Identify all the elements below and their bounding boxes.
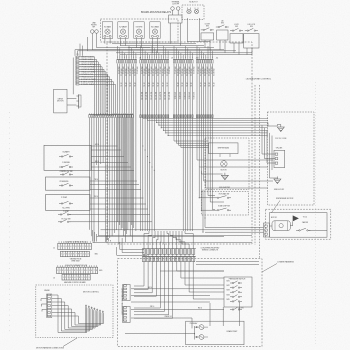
svg-text:3: 3: [66, 254, 67, 256]
svg-text:6: 6: [69, 270, 70, 272]
svg-text:1: 1: [80, 246, 81, 248]
svg-text:2: 2: [83, 246, 84, 248]
svg-text:SW5: SW5: [226, 299, 229, 301]
svg-text:K3 SPIN: K3 SPIN: [136, 27, 143, 29]
ground shifter: [224, 173, 226, 176]
svg-text:2: 2: [60, 270, 61, 272]
switch row 3: [232, 292, 233, 293]
svg-text:MOTOR HARNESS CONNECTIONS: MOTOR HARNESS CONNECTIONS: [36, 347, 65, 350]
connector inline row: [140, 115, 141, 118]
svg-text:OR 16: OR 16: [150, 306, 155, 308]
svg-text:1: 1: [61, 254, 62, 256]
wire bundle J11 down: [197, 64, 273, 160]
table J2 row2: [61, 251, 90, 256]
svg-text:GY-RD 16: GY-RD 16: [174, 92, 176, 99]
switch row lid: [232, 309, 233, 310]
svg-text:5: 5: [71, 254, 72, 256]
svg-text:5: 5: [67, 270, 68, 272]
svg-text:1: 1: [57, 270, 58, 272]
wire comb exits right: [196, 261, 259, 263]
svg-text:5: 5: [68, 246, 69, 248]
svg-text:K6 RLY K7: K6 RLY K7: [189, 2, 197, 4]
svg-text:WIRING CONNECTS: WIRING CONNECTS: [202, 250, 219, 252]
wire S3 down: [233, 43, 235, 53]
component U7: [171, 7, 175, 11]
svg-text:BOARD-MOUNTED RELAYS: BOARD-MOUNTED RELAYS: [141, 11, 172, 14]
svg-text:SW1: SW1: [226, 281, 229, 283]
svg-text:2: 2: [85, 254, 86, 256]
wire bus left bends: [74, 50, 76, 56]
svg-text:PRESSURE SWITCH: PRESSURE SWITCH: [229, 279, 246, 281]
wire P1 staircase: [79, 57, 95, 116]
wire lower run2: [131, 317, 192, 319]
svg-text:K2 WASH: K2 WASH: [119, 26, 127, 29]
svg-text:CUTOFF: CUTOFF: [172, 3, 179, 5]
thermistor RT1: [91, 30, 95, 34]
wire RT1 down: [92, 37, 140, 50]
box L3: [46, 195, 91, 211]
wire S4 down: [246, 48, 248, 55]
wire left drop: [87, 37, 120, 51]
wire K7 down: [198, 18, 200, 42]
connector J11: [197, 59, 213, 61]
svg-text:3: 3: [67, 277, 68, 279]
svg-text:4: 4: [66, 246, 67, 248]
svg-text:P1: P1: [76, 54, 78, 56]
box thermal switches: [224, 277, 252, 307]
svg-text:WH/BK: WH/BK: [44, 290, 50, 292]
ground door: [276, 177, 278, 180]
table J3 row2: [62, 274, 90, 280]
svg-text:GND-DOOR: GND-DOOR: [274, 189, 285, 191]
dashed box shifter: [205, 138, 249, 190]
component drive motor box: [54, 89, 67, 113]
svg-text:6: 6: [91, 270, 92, 272]
svg-text:J3 24-PIN CONNECTOR (J3): J3 24-PIN CONNECTOR (J3): [65, 265, 88, 267]
svg-text:8: 8: [78, 254, 79, 256]
dashed box board-mounted relays: [101, 19, 179, 42]
switch row 2: [232, 287, 233, 288]
relay K6: [187, 9, 191, 13]
faint page line: [315, 82, 317, 345]
wire dispenser internal: [269, 225, 272, 227]
svg-text:2: 2: [86, 277, 87, 279]
wire left boxes to bundles: [91, 145, 118, 147]
svg-text:9: 9: [80, 254, 81, 256]
dashed box dispenser: [266, 209, 331, 239]
svg-text:5: 5: [72, 277, 73, 279]
connector J10: [174, 59, 193, 61]
wire lower run1: [131, 309, 224, 311]
wire relay outputs down: [104, 38, 106, 43]
svg-text:6: 6: [73, 254, 74, 256]
wire box to bracket: [67, 98, 76, 100]
svg-text:9: 9: [78, 246, 79, 248]
connector P3: [47, 295, 49, 317]
svg-text:GY-RD 16: GY-RD 16: [178, 92, 180, 99]
svg-text:3: 3: [63, 246, 64, 248]
svg-text:4: 4: [87, 246, 88, 248]
svg-text:SW: SW: [250, 26, 253, 28]
table J2 row1: [58, 243, 92, 249]
svg-text:SW: SW: [206, 26, 209, 28]
svg-text:1: 1: [79, 270, 80, 272]
wire bundle J9 down: [140, 64, 142, 231]
svg-text:8: 8: [96, 270, 97, 272]
dashed line nested1: [254, 85, 256, 245]
leader motor harness: [63, 338, 77, 347]
svg-text:3: 3: [62, 270, 63, 272]
wire J3 row1 stubs: [57, 265, 59, 267]
transistor Q1: [196, 327, 197, 328]
wire S2 down: [219, 40, 221, 50]
svg-text:SW2: SW2: [226, 285, 229, 287]
svg-text:OVERFLOW SW: OVERFLOW SW: [60, 171, 73, 173]
dashed box machine control: [107, 42, 252, 244]
svg-text:4: 4: [86, 270, 87, 272]
svg-text:SW3: SW3: [226, 290, 229, 292]
arrow to J4: [293, 215, 299, 221]
connector J14: [142, 249, 145, 255]
svg-text:1: 1: [59, 246, 60, 248]
wire J14 gather bends: [144, 231, 149, 249]
svg-text:J3: J3: [53, 278, 55, 280]
box L1: [44, 145, 91, 170]
connector P2: [89, 114, 133, 116]
svg-text:8: 8: [74, 270, 75, 272]
svg-text:SHIFTER ASM: SHIFTER ASM: [218, 147, 230, 150]
motor dispenser: [272, 221, 290, 231]
wire motor control U-bundle: [52, 295, 87, 333]
svg-text:7: 7: [77, 277, 78, 279]
svg-text:7: 7: [94, 270, 95, 272]
connector P5: [123, 307, 125, 321]
svg-text:1: 1: [63, 277, 64, 279]
dashed box dispenser switches: [201, 191, 248, 215]
svg-text:BU-WH 16: BU-WH 16: [154, 92, 156, 100]
svg-text:SW4: SW4: [226, 294, 229, 296]
svg-text:3: 3: [89, 277, 90, 279]
svg-text:GND-SHIFTER: GND-SHIFTER: [219, 187, 231, 189]
svg-text:4: 4: [65, 270, 66, 272]
switch row 1: [232, 282, 233, 283]
box dispenser inner: [269, 213, 327, 238]
svg-text:MOTOR: MOTOR: [221, 169, 228, 171]
svg-text:6: 6: [74, 277, 75, 279]
wire to ground door: [270, 133, 278, 178]
faint margin dots: [9, 112, 11, 333]
dashed box K6 K7: [182, 5, 204, 20]
svg-text:6: 6: [71, 246, 72, 248]
wire to ground 12v: [268, 123, 281, 127]
svg-text:8: 8: [79, 277, 80, 279]
svg-text:LID SW: LID SW: [238, 308, 244, 310]
svg-text:4: 4: [70, 277, 71, 279]
svg-text:BU-WH 16: BU-WH 16: [140, 92, 142, 100]
svg-text:GY-RD 16: GY-RD 16: [183, 92, 185, 99]
svg-text:K1 MAIN: K1 MAIN: [104, 26, 112, 29]
wire dispenser feeds: [205, 226, 264, 228]
switch row 5: [232, 301, 233, 302]
wire P2 bundle down: [89, 118, 91, 230]
motor shifter: [221, 161, 227, 167]
svg-text:9: 9: [77, 270, 78, 272]
wire P3 left stubs: [41, 299, 47, 301]
wire lower run3: [160, 270, 224, 272]
svg-text:N-WASH: N-WASH: [63, 151, 71, 154]
svg-text:MOTOR CONTROL: MOTOR CONTROL: [83, 292, 99, 294]
svg-text:3: 3: [88, 254, 89, 256]
connector disp pins: [264, 223, 270, 237]
svg-text:SW: SW: [235, 26, 238, 28]
wire long runs: [101, 229, 264, 231]
switch row 4: [232, 296, 233, 297]
dashed box lower harness: [118, 259, 262, 347]
svg-text:VP-LINK: VP-LINK: [276, 147, 283, 149]
connector J9: [140, 59, 169, 61]
svg-text:1: 1: [84, 277, 85, 279]
svg-text:2: 2: [64, 254, 65, 256]
svg-text:2: 2: [61, 246, 62, 248]
svg-text:5: 5: [89, 270, 90, 272]
wire bundle into tables: [92, 230, 94, 242]
dashed box door assembly: [267, 112, 314, 205]
wire J2 row1 stubs: [58, 241, 60, 243]
wire shifter terminals: [219, 154, 221, 157]
svg-text:GY-RD 16: GY-RD 16: [192, 92, 194, 99]
transistor Q2: [196, 336, 197, 337]
wire comb left feed: [117, 247, 147, 255]
svg-text:9: 9: [82, 277, 83, 279]
connector VP box: [274, 150, 285, 167]
wire P1 left side: [72, 58, 74, 95]
junction dots: [142, 145, 143, 146]
svg-text:BU-WH 16: BU-WH 16: [145, 92, 147, 100]
wire horizontal bus: [112, 43, 196, 45]
svg-text:J2: J2: [53, 247, 55, 249]
wire S1 down: [204, 40, 206, 48]
wire bundle J8 down: [117, 64, 119, 222]
svg-text:MOTOR: MOTOR: [57, 101, 64, 103]
svg-text:VIEWED FROM: VIEWED FROM: [70, 259, 82, 261]
svg-text:5: 5: [90, 246, 91, 248]
wire bundle J10 down: [174, 64, 209, 141]
svg-text:MOTOR: MOTOR: [271, 217, 278, 219]
wire pump top entries: [209, 303, 211, 326]
connector P1: [75, 56, 77, 85]
wire to wax sw: [199, 167, 215, 198]
svg-text:NC-OPEN: NC-OPEN: [62, 208, 70, 210]
svg-text:PRESSURE: PRESSURE: [60, 181, 69, 183]
connector J8: [117, 59, 136, 61]
svg-text:BU-WH 16: BU-WH 16: [163, 92, 165, 100]
svg-text:TO J4: TO J4: [303, 217, 307, 219]
svg-text:BU-WH 16: BU-WH 16: [159, 92, 161, 100]
table J3 row1: [57, 267, 98, 273]
svg-text:7: 7: [72, 270, 73, 272]
svg-text:WIRE SIDE: WIRE SIDE: [71, 261, 79, 263]
svg-text:12V DC COM: 12V DC COM: [275, 138, 286, 140]
wire to VP: [262, 125, 275, 154]
dashed line nested2: [259, 85, 261, 258]
svg-text:1: 1: [83, 254, 84, 256]
wire pump left feed: [125, 333, 195, 335]
svg-text:LOWER HARNESS: LOWER HARNESS: [277, 261, 294, 264]
svg-text:J11: J11: [216, 58, 219, 60]
svg-text:DRAIN PUMP: DRAIN PUMP: [227, 330, 238, 333]
wire K6 down: [186, 18, 188, 42]
box motor control: [36, 285, 113, 338]
connector P4: [123, 285, 125, 299]
connector bracket: [78, 94, 80, 108]
wire K6K7 bus: [187, 41, 210, 43]
svg-text:2: 2: [82, 270, 83, 272]
box shifter: [209, 143, 238, 154]
wire bus to comb drops: [117, 46, 119, 58]
box L2: [46, 177, 91, 190]
svg-text:BU-WH 16: BU-WH 16: [168, 92, 170, 100]
svg-text:SW: SW: [221, 23, 224, 25]
svg-text:4: 4: [68, 254, 69, 256]
svg-text:P-SENSE: P-SENSE: [62, 162, 70, 164]
svg-text:7: 7: [76, 254, 77, 256]
wire J14 bundle: [134, 262, 144, 286]
ground 12v: [280, 125, 282, 128]
svg-text:LID/MACHINE CONTROL: LID/MACHINE CONTROL: [246, 77, 272, 80]
svg-text:3: 3: [84, 270, 85, 272]
svg-text:K4 DRAIN: K4 DRAIN: [151, 26, 160, 29]
svg-text:7: 7: [73, 246, 74, 248]
svg-text:DISPENSER MOTOR: DISPENSER MOTOR: [276, 198, 294, 200]
svg-text:3: 3: [85, 246, 86, 248]
relay K7: [194, 9, 198, 13]
svg-text:BU-WH 16: BU-WH 16: [149, 92, 151, 100]
box drain pump: [186, 321, 244, 345]
svg-text:2: 2: [65, 277, 66, 279]
svg-text:8: 8: [75, 246, 76, 248]
svg-text:GY-RD 16: GY-RD 16: [187, 92, 189, 99]
